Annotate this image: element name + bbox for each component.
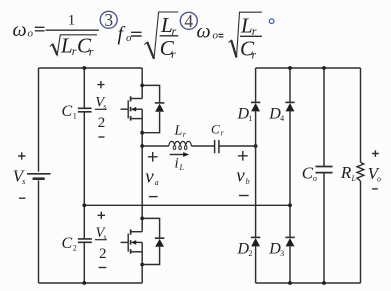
label vb minus: [239, 195, 249, 197]
node dot top mosfet drain: [140, 84, 144, 88]
battery plus label: [18, 152, 25, 159]
mosfet Q2 gate lead: [121, 241, 129, 243]
mosfet Q2 source lead: [131, 251, 142, 253]
diode D4 triangle: [286, 103, 295, 111]
svg-text:v: v: [145, 166, 154, 187]
mosfet Q2 gate bar: [127, 234, 129, 252]
node dot D3 bottom: [288, 281, 292, 285]
equation omega_o = 1/sqrt(LrCr): [13, 19, 34, 41]
wire resonant branch middle: [191, 145, 214, 147]
svg-text:4: 4: [280, 114, 284, 123]
svg-text:C: C: [62, 235, 73, 252]
equals sign eq2: [131, 32, 142, 36]
label Cr: [211, 121, 225, 137]
svg-text:a: a: [155, 178, 159, 187]
wire bridge top rail: [256, 67, 361, 69]
label va plus: [148, 152, 158, 162]
wire bridge bottom rail: [256, 282, 361, 284]
svg-text:2: 2: [99, 246, 107, 262]
wire resonant branch right: [219, 145, 255, 147]
equation f_o = sqrt(Lr/Cr): [118, 23, 133, 45]
svg-text:L: L: [174, 124, 183, 139]
diode Q1 antiparallel branch: [142, 85, 159, 132]
resistor RL column top: [360, 68, 362, 162]
svg-text:1: 1: [68, 13, 76, 29]
diode Q2 triangle: [155, 239, 164, 247]
mosfet Q2 drain lead: [131, 231, 142, 233]
radical sign eq2: [144, 12, 178, 59]
node dot Co top: [322, 66, 326, 70]
node dot cap midpoint: [82, 203, 86, 207]
mosfet Q2 channel ticks: [130, 229, 132, 253]
svg-text:ω: ω: [13, 19, 27, 41]
resistor RL column bottom: [360, 181, 362, 283]
capacitor C2: [83, 205, 85, 238]
mosfet Q1 gate bar: [127, 100, 129, 118]
label C1: [62, 103, 77, 121]
fraction bar eq1: [45, 29, 99, 31]
label C2: [62, 235, 77, 253]
C2 plus label: [98, 212, 105, 219]
svg-text:s: s: [22, 177, 25, 186]
node dot Co bottom: [322, 281, 326, 285]
C1 minus label: [99, 136, 105, 138]
node dot D4 top: [288, 66, 292, 70]
mosfet Q1 body arrow: [131, 107, 136, 112]
wire top rail left: [39, 67, 143, 69]
label va minus: [149, 196, 158, 198]
svg-text:2: 2: [248, 249, 252, 258]
radical sign eq3: [229, 12, 262, 57]
svg-text:L: L: [240, 13, 253, 37]
svg-text:o: o: [377, 174, 381, 183]
diode Q1 triangle: [155, 104, 164, 112]
node dot resonant tap: [140, 144, 144, 148]
label Vs/2 lower: [96, 225, 107, 262]
svg-text:R: R: [340, 163, 352, 182]
wire mid rail (cap midpoint to D4/D3): [84, 204, 290, 206]
label D4: [268, 105, 284, 123]
wire bottom rail left: [39, 282, 143, 284]
svg-text:o: o: [126, 32, 132, 44]
svg-text:2: 2: [73, 244, 77, 253]
mosfet Q1 drain lead: [131, 98, 142, 100]
battery Vs short plate: [33, 177, 45, 180]
svg-text:C: C: [211, 121, 220, 136]
diode D3 cathode bar: [285, 236, 294, 238]
wire D1/D2 column: [255, 68, 257, 283]
label Vo plus: [372, 150, 379, 157]
mosfet Q2 body arrow: [131, 240, 136, 245]
diode D1 triangle: [251, 103, 260, 111]
label D3: [268, 240, 284, 258]
wire half-bridge column top: [141, 68, 143, 99]
small equals eq3: [219, 34, 224, 37]
svg-text:L: L: [179, 163, 185, 172]
node dot mid rail to D4/D3: [288, 203, 292, 207]
label RL: [340, 163, 357, 183]
diode Q2 antiparallel branch: [142, 218, 159, 264]
svg-text:L: L: [351, 174, 357, 183]
label Co: [302, 163, 317, 182]
wire half-bridge column bottom: [141, 242, 143, 283]
equals sign eq1: [35, 27, 45, 31]
label Lr: [174, 124, 187, 139]
label vb plus: [238, 151, 248, 161]
node dot tank to bridge: [254, 144, 258, 148]
diode D3 triangle: [286, 238, 295, 246]
svg-text:o: o: [28, 28, 34, 40]
wire D4/D3 column: [289, 68, 291, 283]
mosfet Q1 gate lead: [121, 108, 129, 110]
svg-text:r: r: [89, 45, 94, 59]
node dot C2 bottom: [82, 281, 86, 285]
diode Q2 cathode bar: [155, 237, 165, 239]
svg-text:3: 3: [104, 10, 113, 30]
equation omega_o = sqrt(Lr/Cr): [197, 21, 219, 43]
svg-text:o: o: [313, 174, 317, 183]
capacitor Co: [323, 68, 325, 166]
label Vs: [13, 166, 26, 185]
wire battery bottom lead: [38, 180, 40, 283]
diode Q1 cathode bar: [155, 102, 165, 104]
wire battery top lead: [38, 68, 40, 172]
label D2: [237, 240, 253, 258]
small blue degree ring: [269, 19, 274, 24]
fraction bar eq2: [160, 35, 179, 37]
svg-text:1: 1: [248, 114, 252, 123]
node dot Q2 source: [140, 263, 144, 267]
mosfet Q1 channel ticks: [130, 96, 132, 120]
diode D4 cathode bar: [285, 101, 294, 103]
battery Vs long plate: [27, 173, 51, 175]
capacitor C1: [83, 68, 85, 108]
wire resonant branch left: [142, 145, 169, 147]
svg-text:1: 1: [73, 112, 77, 121]
resistor RL zigzag: [357, 162, 364, 181]
diode D2 cathode bar: [251, 236, 260, 238]
mosfet Q1 source lead: [131, 118, 142, 120]
svg-text:C: C: [62, 103, 73, 120]
svg-text:ω: ω: [197, 21, 211, 43]
svg-text:L: L: [60, 34, 73, 58]
label vb: [236, 165, 249, 186]
LrCr under radical: [60, 34, 94, 59]
Lr over Cr eq2: [160, 13, 177, 61]
svg-text:i: i: [175, 155, 179, 171]
svg-text:r: r: [252, 48, 257, 62]
radical sign eq1: [50, 35, 97, 55]
Lr over Cr eq3: [240, 13, 257, 61]
current arrow iL: [170, 154, 184, 156]
C1 plus label: [97, 81, 104, 88]
svg-text:4: 4: [184, 11, 193, 31]
battery minus label: [19, 197, 25, 199]
label iL: [175, 155, 185, 172]
svg-text:b: b: [246, 177, 250, 186]
label Vo minus: [372, 188, 378, 190]
diode D2 triangle: [251, 238, 260, 246]
svg-text:3: 3: [280, 249, 284, 258]
svg-text:v: v: [236, 165, 245, 186]
svg-text:2: 2: [98, 115, 106, 131]
circled 4: [180, 12, 197, 29]
node dot Q1 source: [140, 131, 144, 135]
label va: [145, 166, 158, 187]
circled 3: [100, 11, 117, 28]
C2 minus label: [99, 267, 107, 269]
inductor Lr coil: [169, 141, 191, 146]
capacitor Cr plates: [215, 140, 219, 153]
label D1: [237, 105, 253, 123]
svg-text:r: r: [171, 47, 176, 61]
node dot C1 top rail junction: [82, 66, 86, 70]
node dot Q2 drain: [140, 217, 144, 221]
wire half-bridge column middle: [141, 109, 143, 232]
diode D1 cathode bar: [251, 101, 260, 103]
fraction bar eq3: [240, 35, 262, 37]
label Vs/2 upper: [95, 94, 106, 131]
svg-text:o: o: [213, 30, 219, 42]
label Vo: [368, 164, 381, 183]
